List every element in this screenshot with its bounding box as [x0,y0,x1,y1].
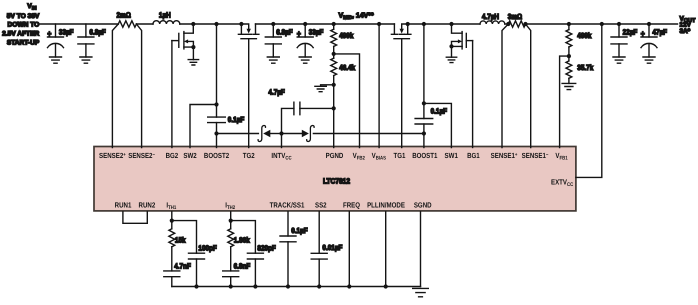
svg-text:3mΩ: 3mΩ [508,12,522,21]
wire: TG1 gate lead [401,39,403,148]
junction: C5 at VMID rail [303,22,307,26]
svg-text:499k: 499k [339,31,354,40]
junction: Q4 source-body tie [449,44,453,48]
inductor L2 1uH [153,21,180,24]
svg-text:4.7nF: 4.7nF [174,261,191,270]
junction: SW1 branch [422,101,426,105]
node VOUT label 12V 3A* [680,16,697,35]
ground below C1 [50,57,62,63]
svg-text:BG2: BG2 [166,151,179,160]
svg-text:DOWN TO: DOWN TO [8,22,40,29]
resistor R2 499k upper divider [333,24,335,29]
diode D1 (to BOOST1) [302,125,314,141]
inductor L1 4.7uH [480,21,505,24]
capacitor C13 820pF [247,253,263,259]
junction: VFB2 divider at VMID rail [332,22,336,26]
capacitor C5 plates [297,37,313,48]
capacitor C1 plates [48,37,64,48]
junction: C11 at ground rail [194,284,198,288]
wire: C11 to ground rail [196,259,198,287]
svg-text:0.1µF: 0.1µF [228,115,245,124]
svg-text:BG1: BG1 [467,151,480,160]
capacitor C3 0.1uF boost2 [208,117,226,123]
transistor Q1 top N-FET (TG2 driven) [238,24,259,39]
resistor R7 1.86k [230,221,232,229]
capacitor C10 4.7nF [164,271,180,277]
svg-text:33µF: 33µF [309,28,324,37]
ground below C2 [80,57,92,63]
wire: boost cap to BOOST2 pin [216,123,218,148]
junction: EXTVCC riser at VOUT rail [600,22,604,26]
svg-text:499k: 499k [577,31,592,40]
junction: VFB1 tap [567,54,571,58]
wire: RUN1-RUN2 tie [123,212,147,224]
wire: R7 to C12 [230,247,232,271]
capacitor C5 33uF mid (polarized) [304,24,306,37]
node VIN source label [2,3,40,46]
capacitor C2 6.8uF input [85,24,87,37]
svg-text:100pF: 100pF [198,243,217,252]
transistor Q3 top N-FET (TG1 driven) [391,24,411,39]
wire: SW2 riser to boost cap [216,24,218,117]
wire: TRACK/SS1 pin lead [287,212,289,236]
wire: SW2 node rail segment [180,23,242,25]
wire: BG1 gate lead [472,41,474,148]
svg-text:47µF: 47µF [652,27,667,36]
junction: Q1 source-body at SW2 [239,22,243,26]
ground below C9 [643,57,655,63]
capacitor C9 47uF out (polarized) [648,24,650,37]
junction: C9 at VOUT rail [647,22,651,26]
junction: C4 at VMID rail [271,22,275,26]
wire: ITH2 pin lead [230,212,232,221]
wire: ITH1 branch to C11 [172,221,197,254]
wire: VFB1 tap to VFB1 pin [560,56,569,147]
ground below R5 [562,83,576,89]
svg-text:FREQ: FREQ [343,201,360,210]
wire: INTVCC pin lead [281,134,283,148]
svg-text:+: + [47,29,51,39]
resistor R6 15k [171,221,173,229]
ground below Q4 [446,57,456,62]
wire: PLLIN/MODE pin to ground rail [385,212,387,287]
junction: BOOST2 riser at SW2 rail [214,22,218,26]
wire: FREQ pin to ground rail [348,212,350,287]
ground below C5 [299,57,311,63]
capacitor C14 0.1uF soft-start [280,236,296,242]
wire: INTVCC node up to C6 [282,108,294,133]
capacitor C8 22uF out [618,24,620,37]
junction: ITH2 leg at ground rail [229,284,233,288]
wire: C12 to ground rail [230,277,232,287]
junction: C13 at ground rail [253,284,257,288]
junction: VBIAS at VMID rail [377,22,381,26]
junction: R3 bottom / PGND [332,83,336,87]
wire: EXTVCC riser [576,24,602,177]
capacitor C4 6.8uF mid [272,24,274,37]
transistor Q4 bottom N-FET (BG1 driven) [452,24,473,49]
capacitor C15 0.01uF soft-start2 [311,253,327,259]
op-amp U1: LTC7812 controller IC body [94,147,576,211]
svg-text:SGND: SGND [414,201,432,210]
svg-text:SENSE1−: SENSE1− [522,151,549,160]
wire: C14 to ground rail [287,242,289,287]
svg-text:1µH: 1µH [159,10,171,19]
svg-text:0.1µF: 0.1µF [431,107,448,116]
svg-text:TG2: TG2 [243,151,255,160]
svg-text:35.7k: 35.7k [577,63,594,72]
wire: SGND pin to ground rail [420,212,422,287]
svg-text:820pF: 820pF [257,243,276,252]
wire: PGND riser [333,85,335,148]
wire: C13 to ground rail [254,259,256,287]
svg-text:RUN2: RUN2 [139,201,156,210]
svg-text:2mΩ: 2mΩ [117,11,131,20]
svg-text:33µF: 33µF [59,28,74,37]
wire: bottom ground rail [172,286,421,288]
transistor Q2 bottom N-FET (BG2 driven) [172,24,194,49]
wire: Q2 source to ground [192,47,194,60]
wire: C6 to PGND riser [300,107,334,109]
svg-text:BOOST2: BOOST2 [204,151,229,160]
junction: 3m-ohm right [523,22,527,26]
resistor R4 499k upper divider out [568,24,570,30]
junction: BOOST2 node [214,131,218,135]
wire: SENSE2- from 2m-ohm right [136,24,141,148]
svg-text:+: + [297,29,301,39]
svg-text:4.7µF: 4.7µF [268,87,285,96]
svg-text:SW2: SW2 [183,151,196,160]
ground at SGND [413,288,429,296]
wire: C15 to ground rail [318,259,320,286]
svg-text:15k: 15k [175,236,186,245]
capacitor C11 100pF [189,253,205,259]
junction: C6 right plate at PGND riser [332,106,336,110]
pin labels bottom row [115,201,432,212]
junction: Q3 source-body at SW1 [406,22,410,26]
svg-text:LTC7812: LTC7812 [323,176,350,185]
svg-text:RUN1: RUN1 [115,201,132,210]
svg-text:SW1: SW1 [445,151,458,160]
resistor 2m-ohm sense (value 2mΩ) [118,21,136,27]
capacitor C7 0.1uF boost1 [415,119,433,125]
svg-text:PGND: PGND [326,151,344,160]
wire: C10 to ground rail [171,277,173,287]
wire: boost cap to BOOST1 pin [423,124,425,148]
svg-text:3A*: 3A* [680,28,691,35]
svg-text:5V TO 38V: 5V TO 38V [7,13,40,20]
svg-text:0.01µF: 0.01µF [322,243,342,252]
ground below C4 [267,57,279,63]
capacitor C4 plates [265,37,281,44]
svg-text:SENSE2+: SENSE2+ [99,151,126,160]
junction: BOOST1 riser at SW1 rail [422,22,426,26]
wire: D2 anode to INTVCC node [270,133,281,135]
capacitor C8 plates [611,37,627,44]
svg-text:PLLIN/MODE: PLLIN/MODE [367,201,405,210]
resistor R5 35.7k lower divider out [568,56,570,61]
wire: stub to ground left of R3 [321,85,334,87]
wire: 2m-ohm to L2 [136,23,153,25]
wire: INTVCC node to diode D1 anode [282,133,302,135]
svg-text:4.7µH: 4.7µH [482,12,499,21]
junction: Q2 source-body tie [191,45,195,49]
svg-text:46.4k: 46.4k [339,63,356,72]
wire: SW2 branch to SW2 pin [190,105,217,148]
svg-text:6.8nF: 6.8nF [234,261,251,270]
ground below Q2 [188,60,198,65]
junction: BOOST1 node [422,131,426,135]
junction: C15 at ground rail [317,284,321,288]
wire: SS2 pin lead [318,212,320,254]
wire: VMID rail segment [256,23,395,25]
svg-text:SENSE1+: SENSE1+ [491,151,518,160]
svg-text:6.8µF: 6.8µF [89,28,106,37]
junction: ITH1 node [170,219,174,223]
svg-text:TG1: TG1 [394,151,406,160]
wire: R6 to C10 [171,247,173,271]
wire: SENSE1- from 3m-ohm right [526,24,531,148]
resistor R3 46.4k lower divider [333,54,335,58]
wire: SW1 node rail segment [408,23,480,25]
junction: FREQ at ground rail [347,284,351,288]
junction: C14 at ground rail [286,284,290,288]
svg-text:+: + [641,28,645,38]
svg-text:6.8µF: 6.8µF [276,28,293,37]
svg-text:0.1µF: 0.1µF [291,226,308,235]
svg-text:22µF: 22µF [623,27,638,36]
junction: PLLIN/MODE at ground rail [384,284,388,288]
wire: BG2 gate lead [171,41,173,148]
junction: SW2 branch [214,102,218,106]
pin labels top row [99,151,568,162]
svg-text:BOOST1: BOOST1 [412,151,437,160]
svg-text:SS2: SS2 [315,201,327,210]
junction: C8 at VOUT rail [617,22,621,26]
junction: 3m-ohm left [506,22,510,26]
junction: VFB1 divider at VOUT rail [567,22,571,26]
wire: SW1 branch to SW1 pin [424,103,452,147]
wire: VBIAS pin riser [378,24,380,148]
junction: Q2 drain at SW2 rail [191,22,195,26]
diode D2 (to BOOST2) [258,125,270,141]
resistor 3m-ohm sense (value 3mΩ) [508,21,525,27]
wire: Q4 source to ground [451,46,453,57]
wire: VIN rail to 2m-ohm sense resistor [40,23,118,25]
wire: D1 cathode to BOOST1 node [313,133,424,135]
svg-text:1.86k: 1.86k [234,236,251,245]
svg-text:TRACK/SS1: TRACK/SS1 [270,201,305,210]
junction: ITH2 node [229,219,233,223]
capacitor C12 6.8nF [223,271,239,277]
wire: BOOST2 to diode D2 cathode [217,133,259,135]
wire: TG2 gate lead [248,39,250,148]
wire: SENSE2+ from 2m-ohm left [112,24,118,148]
wire: ITH1 pin lead [171,212,173,221]
capacitor C1 33uF input (polarized) [55,24,57,37]
junction: Q4 drain at SW1 rail [449,22,453,26]
ground at R3 bottom [315,86,326,91]
wire: L1 to 3m-ohm [505,23,509,25]
wire: ITH2 branch to C13 [231,221,256,254]
ground below C8 [613,57,625,63]
wire: VFB2 tap to VFB2 pin [334,54,360,148]
capacitor C6 4.7uF INTVCC [294,102,300,115]
wire: VOUT rail [526,23,678,25]
capacitor C9 plates [641,37,657,48]
wire: SW1 riser to boost cap [423,24,425,119]
svg-text:START-UP: START-UP [7,40,40,47]
junction: INTVCC node [279,131,283,135]
junction: VFB2 tap [332,52,336,56]
wire: SENSE1+ from 3m-ohm left [502,24,508,148]
capacitor C2 plates [78,37,94,44]
svg-text:2.5V AFTER: 2.5V AFTER [2,31,39,38]
svg-text:SENSE2−: SENSE2− [128,151,155,160]
